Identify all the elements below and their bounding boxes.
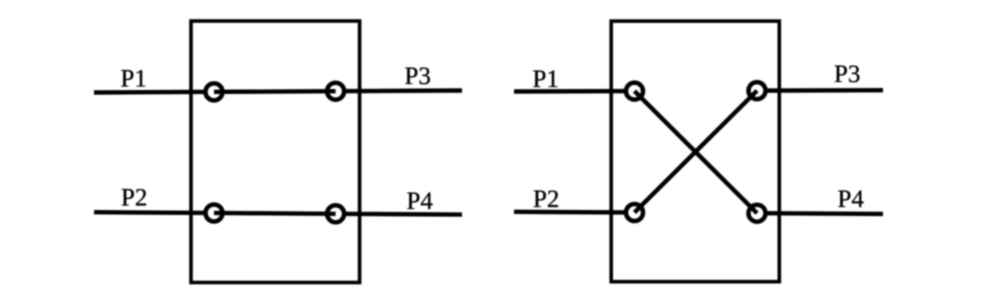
port circle P3 (bar) — [327, 83, 344, 100]
wire P3 output — [336, 88, 462, 93]
port circle P3 (cross) — [749, 82, 766, 99]
wire P4 output (cross) — [757, 211, 883, 216]
wire cross path P1-P4 — [635, 91, 758, 213]
wire bar path P1-P3 — [214, 89, 336, 94]
wire P1 input — [94, 90, 214, 95]
svg-text:P2: P2 — [533, 186, 559, 213]
svg-text:P3: P3 — [834, 61, 860, 88]
port circle P1 (bar) — [206, 83, 223, 100]
svg-text:P4: P4 — [838, 186, 865, 213]
port circle P4 (bar) — [327, 205, 344, 222]
port circle P4 (cross) — [749, 205, 766, 222]
port circle P1 (cross) — [626, 83, 643, 100]
wire P2 input — [94, 210, 214, 215]
svg-text:P4: P4 — [407, 188, 434, 215]
wire P1 input (cross) — [514, 89, 635, 94]
svg-text:P2: P2 — [121, 185, 147, 212]
box bar-state switch — [191, 21, 360, 283]
wire bar path P2-P4 — [214, 211, 336, 216]
svg-text:P3: P3 — [405, 63, 431, 90]
wire P3 output (cross) — [757, 88, 883, 93]
port circle P2 (bar) — [206, 204, 223, 221]
box cross-state switch — [611, 21, 779, 282]
wire P2 input (cross) — [514, 210, 635, 215]
wire cross path P2-P3 — [635, 91, 758, 213]
svg-text:P1: P1 — [121, 66, 147, 93]
port circle P2 (cross) — [626, 204, 643, 221]
wire P4 output — [336, 212, 462, 217]
svg-text:P1: P1 — [533, 66, 559, 93]
